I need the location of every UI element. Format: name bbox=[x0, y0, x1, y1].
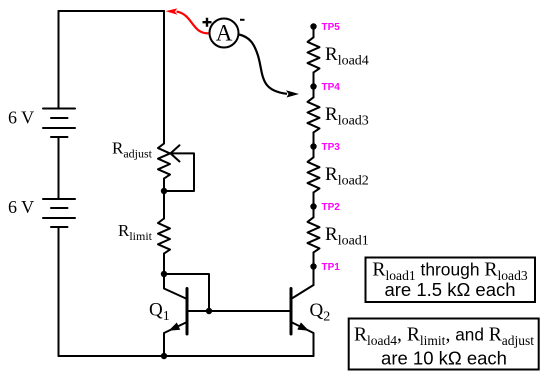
ammeter plus sign bbox=[203, 18, 212, 27]
wire top rail bbox=[59, 10, 165, 12]
node TP2 bbox=[310, 203, 316, 209]
wire left rail lower bbox=[58, 227, 60, 356]
svg-text:Rload2: Rload2 bbox=[325, 164, 369, 189]
wire Rload1 to Q2 collector bbox=[313, 252, 315, 285]
black test lead bbox=[239, 35, 287, 94]
svg-text:are 1.5 kΩ each: are 1.5 kΩ each bbox=[384, 279, 515, 300]
svg-text:6 V: 6 V bbox=[8, 108, 34, 128]
svg-text:6 V: 6 V bbox=[8, 197, 34, 217]
node dot wiper junction bbox=[161, 188, 167, 194]
svg-text:Rlimit: Rlimit bbox=[118, 221, 153, 243]
node TP1 bbox=[310, 263, 316, 269]
red test lead bbox=[177, 12, 209, 34]
svg-text:TP2: TP2 bbox=[322, 202, 341, 213]
note box 1 frame bbox=[366, 258, 536, 303]
wire Radjust wiper loop bbox=[164, 153, 194, 191]
svg-text:TP1: TP1 bbox=[322, 262, 341, 273]
potentiometer Radjust bbox=[158, 144, 170, 179]
svg-text:TP3: TP3 bbox=[322, 142, 341, 153]
svg-text:TP5: TP5 bbox=[322, 22, 341, 33]
svg-text:are 10 kΩ each: are 10 kΩ each bbox=[381, 348, 507, 369]
Radjust wiper arrow bbox=[171, 145, 180, 161]
node TP3 bbox=[310, 143, 316, 149]
wire Rload3 to TP3 bbox=[313, 132, 315, 157]
wire Rload2 to TP2 bbox=[313, 192, 315, 217]
node TP5 bbox=[310, 23, 316, 29]
ammeter A1 body bbox=[210, 19, 239, 48]
svg-text:Rload1: Rload1 bbox=[325, 224, 369, 249]
node TP4 bbox=[310, 83, 316, 89]
svg-text:Rload4: Rload4 bbox=[325, 44, 369, 69]
svg-text:Q1: Q1 bbox=[149, 300, 170, 325]
svg-text:Rload3: Rload3 bbox=[325, 104, 369, 129]
wire middle rail bbox=[163, 11, 165, 144]
wire Rload4 to TP4 bbox=[313, 72, 315, 97]
wire Radjust to Rlimit bbox=[163, 179, 165, 219]
note box 2 frame bbox=[349, 319, 539, 370]
svg-text:A: A bbox=[216, 21, 233, 46]
node dot collector tie bbox=[161, 271, 167, 277]
wire left rail upper bbox=[58, 11, 60, 109]
resistor Rload3 bbox=[308, 97, 320, 132]
battery B1 (6 V) bbox=[43, 109, 75, 138]
wire load chain top bbox=[313, 27, 315, 38]
svg-text:Rload4, Rlimit, and Radjust: Rload4, Rlimit, and Radjust bbox=[354, 325, 534, 349]
wire base Q1-Q2 bbox=[187, 310, 291, 312]
red test lead arrowhead bbox=[166, 8, 178, 14]
svg-text:Radjust: Radjust bbox=[112, 139, 153, 161]
svg-text:TP4: TP4 bbox=[322, 82, 341, 93]
resistor Rlimit bbox=[158, 219, 170, 254]
resistor Rload1 bbox=[308, 217, 320, 252]
resistor Rload4 bbox=[308, 37, 320, 72]
battery B2 (6 V) bbox=[43, 199, 75, 227]
node dot base junction bbox=[206, 308, 212, 314]
wire left rail middle bbox=[58, 137, 60, 199]
transistor Q1 bbox=[164, 274, 187, 356]
svg-text:Q2: Q2 bbox=[310, 300, 331, 325]
black test lead arrowhead bbox=[286, 90, 299, 97]
resistor Rload2 bbox=[308, 157, 320, 192]
node dot emitter bottom rail bbox=[161, 353, 167, 359]
ammeter minus sign bbox=[240, 19, 245, 21]
wire collector-base tie bbox=[164, 274, 209, 311]
wire Rlimit to node bbox=[163, 254, 165, 274]
transistor Q2 bbox=[291, 267, 314, 357]
wire bottom rail bbox=[59, 355, 314, 357]
